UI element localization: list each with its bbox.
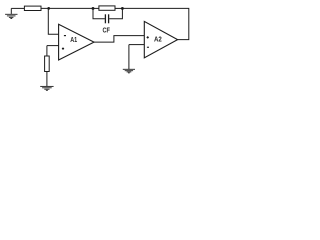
svg-text:CF: CF <box>102 25 110 34</box>
wire <box>115 7 122 9</box>
wire <box>46 72 48 87</box>
resistor R1 (input, horizontal) <box>24 6 41 10</box>
ground (below A2 inverting input) <box>123 69 135 73</box>
ground (top-left) <box>5 8 17 18</box>
node A (junction dot) <box>47 7 50 10</box>
svg-text:A1: A1 <box>70 37 77 44</box>
op-amp A2 <box>144 21 177 57</box>
node C (junction dot, feedback right) <box>121 7 124 10</box>
resistor RF (feedback, horizontal) <box>99 6 115 10</box>
wire <box>11 7 24 9</box>
wire <box>93 8 105 18</box>
capacitor CF <box>105 14 108 23</box>
wire <box>47 45 59 47</box>
wire <box>48 8 58 34</box>
wire <box>94 36 144 43</box>
wire <box>41 7 93 9</box>
node B (junction dot, feedback left) <box>92 7 95 10</box>
ground (below R2) <box>40 86 53 90</box>
wire <box>128 45 130 70</box>
wire <box>122 8 188 39</box>
resistor R2 (vertical) <box>45 56 50 72</box>
op-amp A1 <box>59 24 94 60</box>
svg-text:A2: A2 <box>154 37 162 44</box>
wire <box>93 7 99 9</box>
wire <box>46 46 48 56</box>
wire <box>109 8 122 18</box>
wire <box>129 44 144 46</box>
